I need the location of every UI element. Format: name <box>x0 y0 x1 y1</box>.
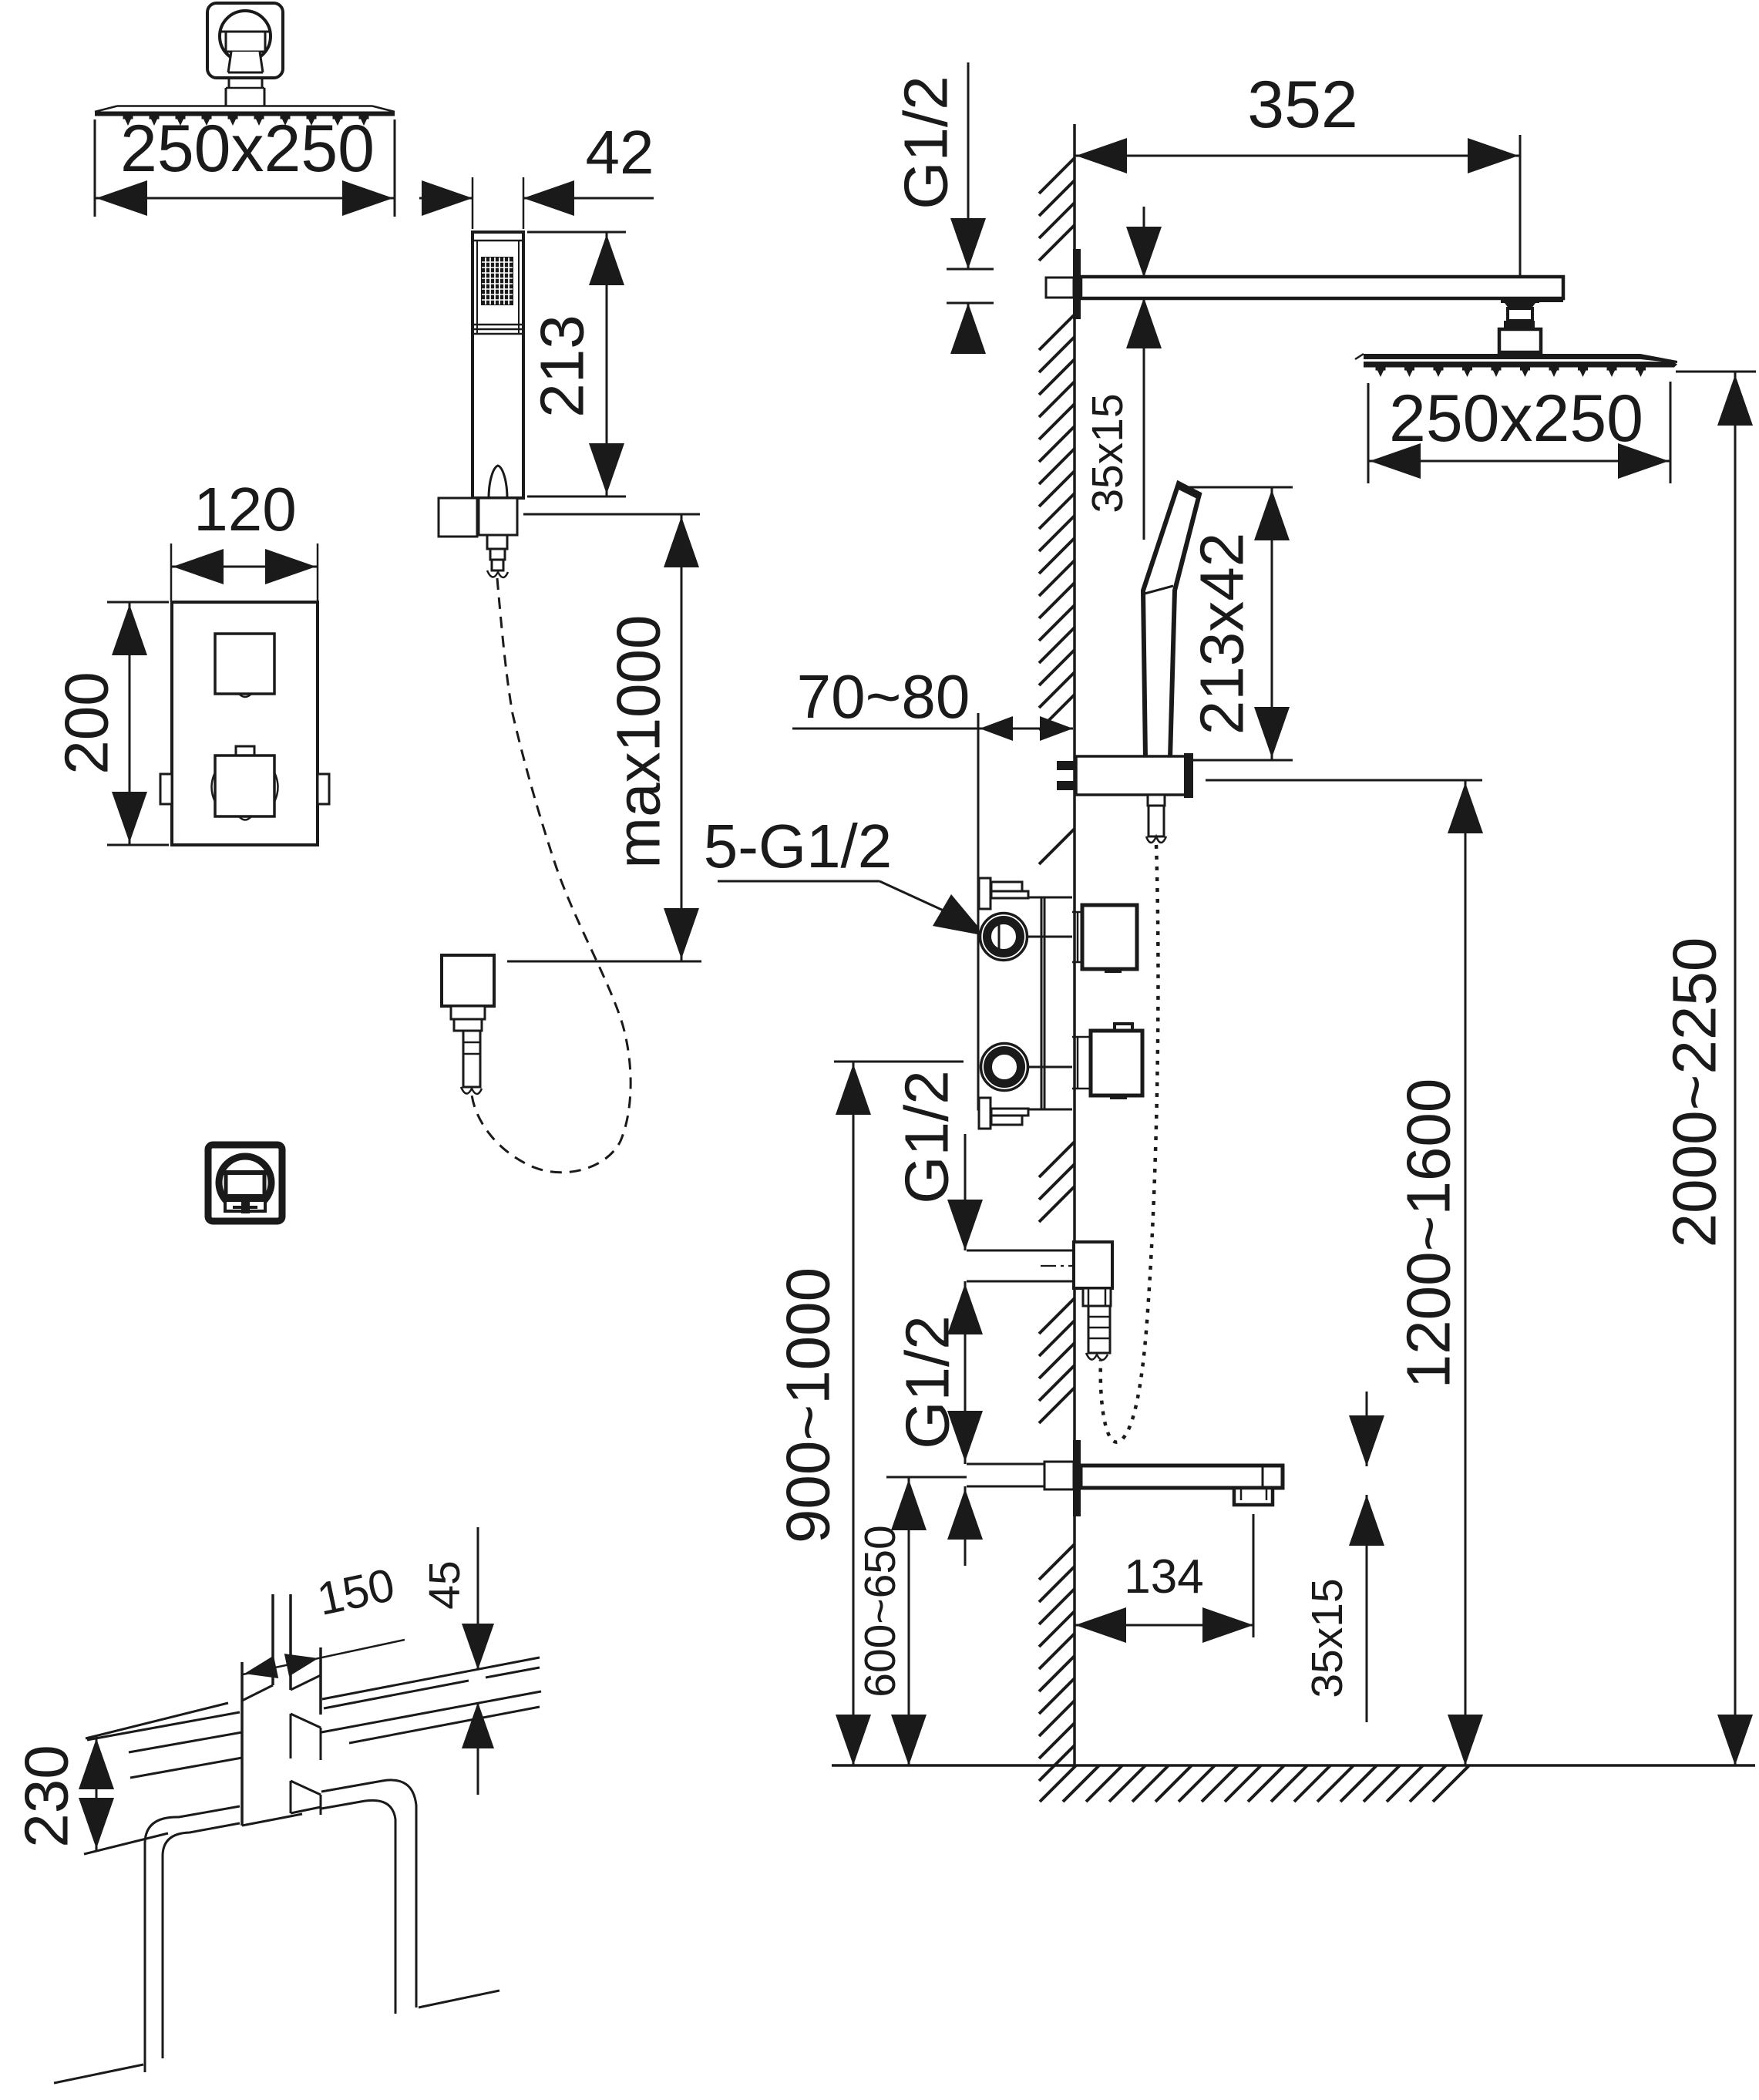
svg-text:5-G1/2: 5-G1/2 <box>704 812 893 880</box>
svg-text:213x42: 213x42 <box>1188 533 1256 735</box>
svg-text:134: 134 <box>1124 1550 1203 1604</box>
svg-text:250x250: 250x250 <box>1389 382 1643 456</box>
svg-text:200: 200 <box>52 671 121 774</box>
svg-text:G1/2: G1/2 <box>893 1070 961 1203</box>
svg-text:G1/2: G1/2 <box>893 1315 962 1449</box>
svg-text:G1/2: G1/2 <box>892 76 960 209</box>
svg-text:70~80: 70~80 <box>797 662 970 731</box>
svg-text:35x15: 35x15 <box>1083 393 1132 513</box>
svg-text:600~650: 600~650 <box>856 1525 905 1698</box>
svg-text:230: 230 <box>12 1745 81 1847</box>
svg-text:213: 213 <box>528 315 597 417</box>
svg-text:120: 120 <box>193 475 296 544</box>
svg-text:2000~2250: 2000~2250 <box>1660 937 1729 1248</box>
svg-text:35x15: 35x15 <box>1303 1578 1352 1698</box>
svg-text:250x250: 250x250 <box>120 112 375 186</box>
svg-text:1200~1600: 1200~1600 <box>1394 1079 1463 1389</box>
svg-text:max1000: max1000 <box>604 614 673 868</box>
svg-text:352: 352 <box>1247 68 1358 142</box>
svg-text:45: 45 <box>420 1560 469 1609</box>
svg-text:42: 42 <box>586 118 654 187</box>
svg-text:900~1000: 900~1000 <box>774 1267 843 1543</box>
